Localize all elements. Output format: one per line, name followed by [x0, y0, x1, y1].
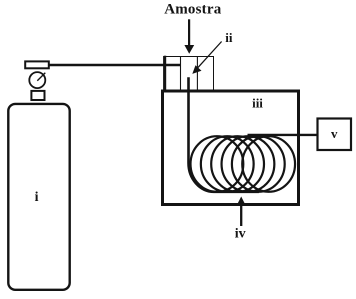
coil loop 5	[232, 136, 285, 192]
coil loop 1	[191, 136, 244, 192]
ii arrowhead	[192, 65, 201, 74]
iv arrow shaft	[240, 204, 242, 226]
injector box outline	[164, 57, 214, 92]
cylinder neck	[31, 91, 44, 100]
outlet line from coil to detector v	[248, 134, 318, 136]
ii arrow shaft	[197, 42, 222, 69]
svg-text:i: i	[35, 190, 39, 205]
injector divider 2	[196, 56, 198, 91]
iv arrowhead	[237, 197, 246, 206]
injector thick left wall	[164, 56, 166, 91]
coil loop 3	[211, 136, 264, 192]
injector divider 1	[180, 56, 182, 91]
detector box v	[318, 119, 352, 151]
coil loop 2	[201, 136, 254, 192]
svg-text:v: v	[331, 126, 338, 141]
pressure gauge	[29, 72, 45, 88]
svg-text:iii: iii	[252, 96, 263, 111]
coil loop 4	[222, 136, 275, 192]
regulator bar on cylinder	[25, 61, 49, 68]
svg-text:Amostra: Amostra	[164, 2, 222, 18]
Amostra arrowhead	[184, 45, 194, 54]
carrier gas line from regulator to injector	[50, 64, 181, 67]
gauge needle	[37, 73, 45, 81]
inlet tube from injector down into coil	[189, 77, 259, 192]
gas cylinder body	[8, 104, 69, 290]
oven box iii	[163, 91, 299, 205]
svg-text:ii: ii	[225, 30, 233, 45]
svg-text:iv: iv	[235, 227, 246, 242]
coil loop 6	[242, 136, 295, 192]
Amostra arrow shaft	[188, 19, 190, 46]
